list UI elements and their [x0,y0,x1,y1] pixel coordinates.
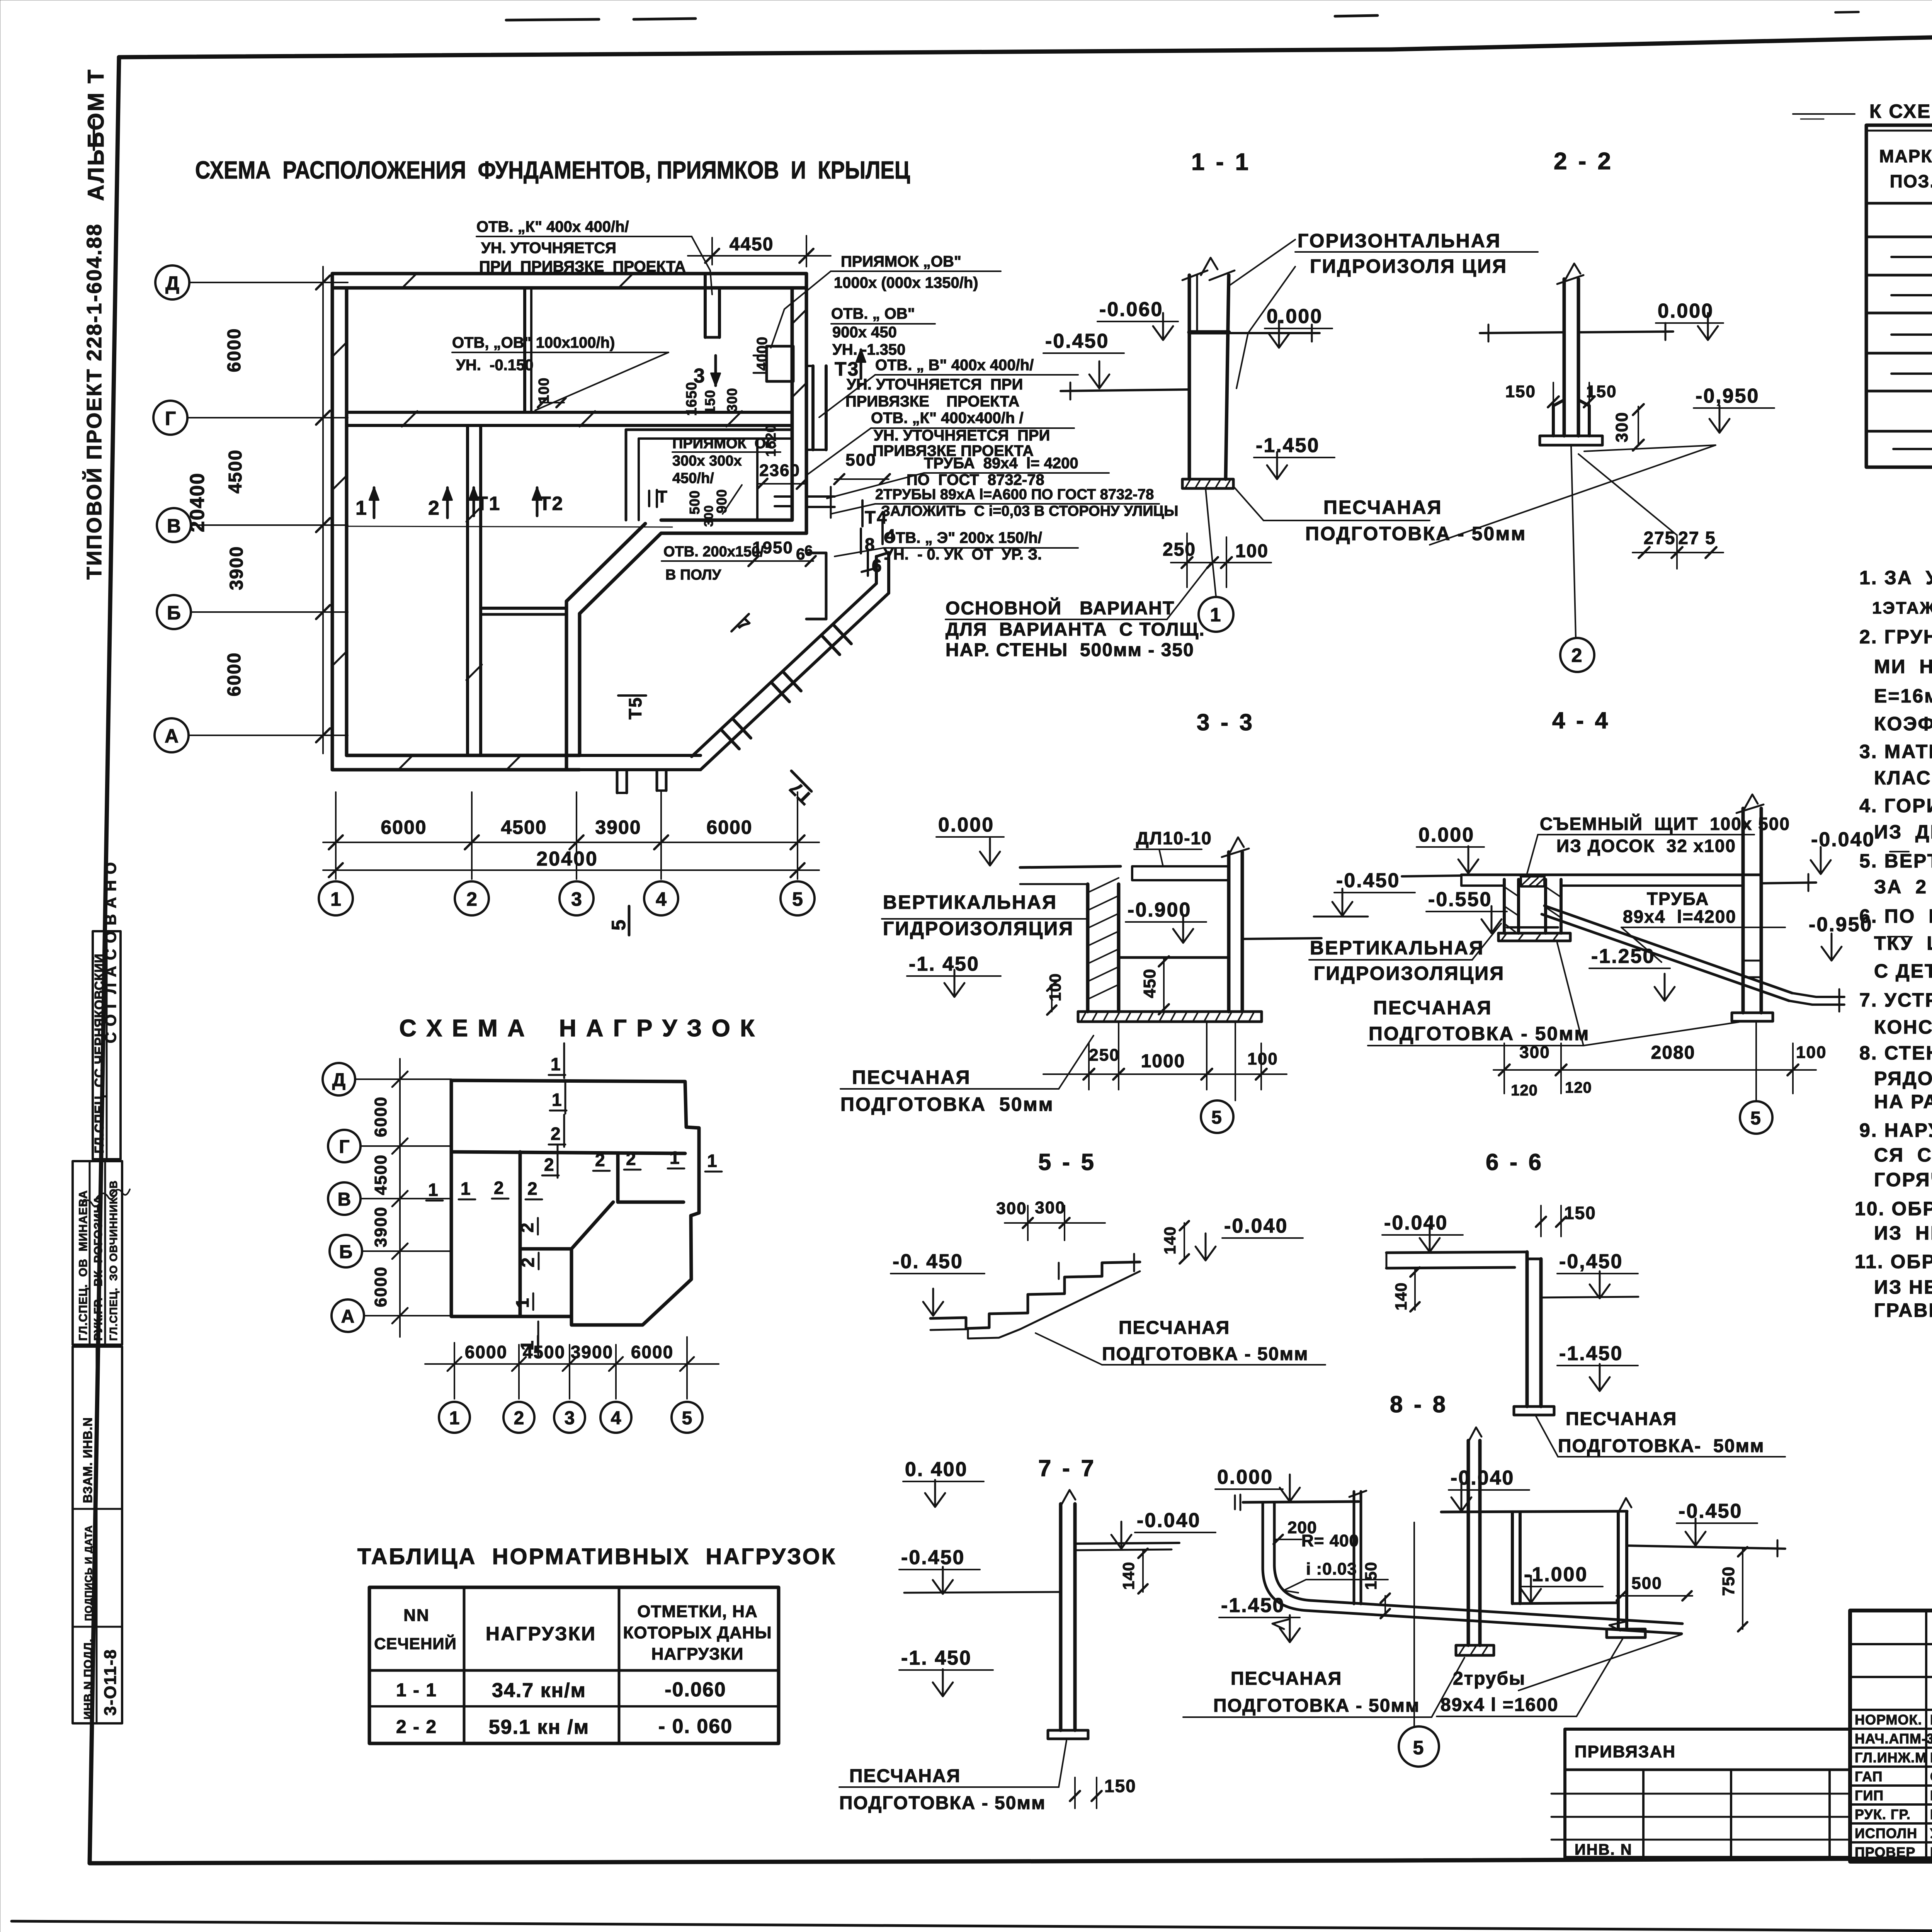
svg-text:ПЕСЧАНАЯ: ПЕСЧАНАЯ [852,1066,971,1088]
svg-text:РУК. ГР.: РУК. ГР. [1855,1806,1911,1822]
svg-text:150: 150 [1362,1561,1380,1590]
svg-text:4450: 4450 [730,234,774,255]
plan bay box right of wall [806,366,826,450]
sidebar inventory strip [73,1347,122,1723]
svg-text:ИЗ ДВУХ СЛОЕВ ГИДРОИЗОЛА Н: ИЗ ДВУХ СЛОЕВ ГИДРОИЗОЛА НА БИТУМНОЙ МАС… [1874,821,1932,843]
svg-text:ИЗ НЕПУЧИНИСТЫХ ГРУНТОВ.: ИЗ НЕПУЧИНИСТЫХ ГРУНТОВ. [1874,1222,1932,1244]
svg-text:ТРУБА 89х4 l= 4200: ТРУБА 89х4 l= 4200 [924,455,1078,472]
svg-text:ТРУБА: ТРУБА [1647,889,1709,909]
plan lower step box right of wall [806,553,826,619]
svg-text:4500: 4500 [371,1154,390,1195]
section mark T1 [469,488,501,516]
section 1-1 elevation -0.060 [1097,298,1178,340]
plan bottom dim line [323,792,819,879]
svg-text:100: 100 [1046,973,1064,1001]
section 8-8 axis circle 5 [1399,1522,1439,1767]
section 3-3 floor line right [1242,938,1321,939]
svg-text:6000: 6000 [224,652,245,697]
section 8-8 dim 750 [1719,1547,1747,1631]
svg-text:2: 2 [1571,645,1583,666]
section 4-4 elevation -0.040 right [1811,828,1909,874]
plan interior wall axis Б [481,607,566,610]
svg-text:В ПОЛУ: В ПОЛУ [665,567,721,583]
section 4-4 removable shield [1521,876,1544,886]
section 6-6 peschanaya text [1558,1409,1764,1456]
dim 2360 [757,461,807,489]
svg-text:7 - 7: 7 - 7 [1038,1455,1096,1481]
section 4-4 peschanaya text [1369,997,1590,1044]
title block stamp [1850,1611,1932,1862]
svg-text:Б: Б [167,602,181,624]
svg-text:1: 1 [512,1298,532,1308]
section 7-7 peschanaya text [839,1766,1046,1813]
svg-text:2трубы: 2трубы [1453,1668,1526,1689]
section mark 7 on stairs [731,614,754,636]
callout otv K 400x400 2 [871,410,1050,459]
svg-text:5: 5 [1211,1107,1223,1128]
svg-text:ВЗАМ. ИНВ.N: ВЗАМ. ИНВ.N [81,1417,95,1503]
section 4-4 pipe diagonal [1542,906,1844,1012]
svg-text:УН. УТОЧНЯЕТСЯ: УН. УТОЧНЯЕТСЯ [481,240,616,257]
plan right exterior wall [805,274,808,533]
section 3-3 bottom dims [1043,1022,1287,1090]
osnovnoy variant note [946,597,1205,660]
svg-text:УН. -0.150: УН. -0.150 [456,357,534,374]
top margin dashes [506,6,1932,20]
section 7-7 dim 140 [1119,1549,1148,1594]
section 1-1 ground line left [1061,389,1189,391]
svg-text:0.000: 0.000 [1658,300,1714,322]
plan priyamok OV box top-right [753,346,793,381]
svg-text:ГРАВИЕМ И УТРАМБОВАННЫХ.: ГРАВИЕМ И УТРАМБОВАННЫХ. [1874,1299,1932,1321]
svg-text:1 - 1: 1 - 1 [1191,149,1251,175]
section 7-7 elevation 0.400 [903,1458,984,1507]
section 8-8 elevation -0.040 [1449,1467,1529,1511]
svg-text:НЕКЛЮДОВ: НЕКЛЮДОВ [1930,1712,1932,1728]
section 3-3 vert hydro text [883,891,1074,939]
svg-text:ПРИВЯЗАН: ПРИВЯЗАН [1575,1742,1676,1761]
section 7-7 elevation -0.040 [1111,1509,1216,1549]
svg-text:ПИЧУГИН: ПИЧУГИН [1930,1750,1932,1765]
section 5-5 dim 140 [1161,1221,1189,1264]
section 2-2 elevation -0.950 [1694,385,1774,433]
svg-text:ОТВ. „ В" 400х 400/h/: ОТВ. „ В" 400х 400/h/ [875,357,1034,374]
svg-text:1: 1 [449,1408,460,1429]
svg-text:СХЕМА РАСПОЛОЖЕНИЯ ФУНДАМЕНТ: СХЕМА РАСПОЛОЖЕНИЯ ФУНДАМЕНТОВ, ПРИЯМКОВ… [195,156,910,184]
svg-text:ГОРЯЧИМ БИТУМОМ ЗА 2 РАЗА.: ГОРЯЧИМ БИТУМОМ ЗА 2 РАЗА. [1874,1169,1932,1190]
svg-text:САБО: САБО [1930,1769,1932,1784]
svg-text:250: 250 [1089,1046,1119,1065]
svg-text:ГОРИЗОНТАЛЬНАЯ: ГОРИЗОНТАЛЬНАЯ [1298,230,1501,252]
svg-text:100: 100 [1796,1043,1827,1062]
svg-text:ЗАЛОЖИТЬ С i=0,03 В СТОРОНУ У: ЗАЛОЖИТЬ С i=0,03 В СТОРОНУ УЛИЦЫ [881,503,1178,519]
svg-text:1: 1 [428,1180,438,1200]
svg-text:ПОДГОТОВКА - 50мм: ПОДГОТОВКА - 50мм [1102,1344,1308,1364]
porch bottom edge [580,768,701,771]
svg-text:В: В [338,1189,351,1210]
section mark T3 [835,350,866,380]
svg-text:ПЕСЧАНАЯ: ПЕСЧАНАЯ [1119,1318,1230,1338]
svg-text:0.000: 0.000 [1217,1466,1273,1488]
svg-text:ПРИЯМОК ОС: ПРИЯМОК ОС [672,435,777,452]
svg-text:ИЗ ДОСОК 32 х100: ИЗ ДОСОК 32 х100 [1556,836,1736,856]
svg-text:ИЗ НЕПУЧИНИ СТЫХ ГРУНТОВ, У: ИЗ НЕПУЧИНИ СТЫХ ГРУНТОВ, УПЛОТНЕННЫХ ЩЕ… [1874,1276,1932,1298]
section 5-5 dims 300 300 [996,1198,1105,1240]
svg-text:ПО ГОСТ 8732-78: ПО ГОСТ 8732-78 [906,471,1044,488]
svg-text:20400: 20400 [186,473,209,532]
section 2-2 footing [1540,436,1602,445]
svg-text:150: 150 [702,389,718,414]
svg-text:-0.040: -0.040 [1137,1509,1201,1532]
porch diagonal stairs [692,583,889,770]
svg-text:2080: 2080 [1651,1043,1696,1063]
plan priyamok OS box [626,430,792,520]
section 3-3 pit walls [1020,837,1262,1022]
svg-text:7. УСТРОЙСТВО ПРИЯМКОВ ПРО: 7. УСТРОЙСТВО ПРИЯМКОВ ПРОИЗВОДИТЬ ДО ВЫ… [1859,989,1932,1011]
dim 4450 top [688,234,831,267]
svg-text:300: 300 [1612,412,1631,442]
svg-text:ПИЧУГИН: ПИЧУГИН [1930,1731,1932,1747]
svg-text:120: 120 [1511,1082,1538,1099]
svg-text:300: 300 [702,505,716,527]
svg-text:300: 300 [1519,1043,1550,1062]
load scheme axis dims [371,1059,408,1337]
svg-text:А: А [341,1306,355,1327]
svg-text:ТИПОВОЙ ПРОЕКТ 228-1-604.88: ТИПОВОЙ ПРОЕКТ 228-1-604.88 [82,223,106,580]
svg-text:ГЛ.ИНЖ.М: ГЛ.ИНЖ.М [1855,1750,1927,1765]
svg-text:-1. 450: -1. 450 [909,953,980,975]
load table [369,1587,779,1743]
section 8-8 left floor slab [1235,1495,1359,1510]
svg-text:300х 300х: 300х 300х [672,453,742,469]
svg-text:ПОЗ.: ПОЗ. [1890,171,1932,191]
svg-text:ГИП: ГИП [1855,1787,1884,1803]
section 3-3 elevation -1.450 [907,953,1001,997]
section 8-8 dim 150 mid [1362,1561,1390,1618]
section 1-1 elevation -0.450 [1043,330,1124,388]
section 3-3 peschanaya text [840,1066,1054,1115]
svg-text:6: 6 [872,556,883,576]
svg-text:-0. 450: -0. 450 [893,1250,963,1273]
svg-text:-0,450: -0,450 [1559,1250,1623,1273]
svg-text:ПРОВЕР: ПРОВЕР [1855,1844,1915,1860]
svg-text:6000: 6000 [631,1342,673,1362]
svg-text:1: 1 [461,1179,471,1199]
svg-text:0.000: 0.000 [938,814,994,836]
peschanaya podgotovka 1-1 2-2 text [1305,497,1526,544]
svg-text:3 - 3: 3 - 3 [1197,709,1255,735]
plan diagonal exterior wall [580,533,661,614]
plan axis B centerline [348,526,672,527]
svg-text:НЕКЛЮДОВ: НЕКЛЮДОВ [1930,1787,1932,1803]
section 8-8 pipe with curve [1263,1502,1682,1634]
svg-text:8. СТЕНКИ ПРИЯМКОВ ВЫПОЛНИ: 8. СТЕНКИ ПРИЯМКОВ ВЫПОЛНИТЬ ИЗ КИРПИЧА … [1859,1042,1932,1064]
section mark 8 [861,529,876,554]
plan bottom exterior wall [332,768,580,772]
svg-text:300: 300 [1035,1198,1065,1217]
svg-text:КЛАССА В 10, F=100, Wб.: КЛАССА В 10, F=100, Wб. [1874,767,1932,789]
svg-text:Е=16мПа (160кгс/см²) ; γн=1,8: Е=16мПа (160кгс/см²) ; γн=1,8 тс/м³ ; γп… [1874,685,1932,707]
svg-text:3: 3 [571,888,582,910]
plan exterior wall axis3 below diagonal [578,614,582,755]
svg-text:5: 5 [1750,1108,1762,1129]
svg-text:900: 900 [714,489,730,513]
svg-text:150: 150 [1505,382,1536,401]
svg-text:5: 5 [682,1408,692,1429]
svg-text:4000: 4000 [754,337,770,371]
svg-text:РУК.ГР. ВК РОГОЗИНА: РУК.ГР. ВК РОГОЗИНА [92,1196,105,1341]
svg-text:СЪЕМНЫЙ ЩИТ 100х 500: СЪЕМНЫЙ ЩИТ 100х 500 [1540,814,1790,834]
section mark T2 [532,488,564,516]
svg-text:ЗА 2 РАЗА.: ЗА 2 РАЗА. [1874,876,1932,898]
svg-text:i :0.03: i :0.03 [1306,1560,1357,1578]
section 1-1 elevation -1.450 [1254,434,1335,479]
paper bottom edge line [12,1921,1932,1932]
svg-text:НАГРУЗКИ: НАГРУЗКИ [651,1645,744,1663]
svg-text:9. НАРУЖНЫЕ ПОВЕРХНОСТИ С: 9. НАРУЖНЫЕ ПОВЕРХНОСТИ СТЕНОК ПРИЯМКОВ,… [1859,1119,1932,1141]
section 8-8 peschanaya text [1213,1668,1420,1716]
svg-text:6 - 6: 6 - 6 [1486,1149,1544,1175]
svg-text:6: 6 [804,543,813,559]
svg-text:3900: 3900 [571,1342,613,1362]
load scheme interior walls [451,1152,685,1316]
svg-text:Г: Г [339,1137,349,1157]
svg-text:-1. 450: -1. 450 [901,1647,972,1669]
svg-text:К СХЕМЕ: К СХЕМЕ [1869,100,1932,122]
svg-text:КОЭФФИЦИЕНТ УСЛОВИЙ РАБОТЫ: КОЭФФИЦИЕНТ УСЛОВИЙ РАБОТЫ ГРУНТОВОГО ОС… [1874,713,1932,735]
svg-text:ОТВ. „К" 400х 400/h/: ОТВ. „К" 400х 400/h/ [476,218,629,235]
section 1-1 bottom dims [1163,533,1271,587]
porch right vertical piece [862,553,889,593]
section 4-4 truba text [1623,889,1736,927]
plan pipe marks inside priyamok area [649,487,835,518]
svg-text:6000: 6000 [371,1266,390,1307]
svg-text:ОСНОВНОЙ ВАРИАНТ: ОСНОВНОЙ ВАРИАНТ [946,597,1175,619]
plan left exterior wall [331,274,334,770]
section 3-3 elevation 0.000 [936,814,1004,866]
svg-text:3900: 3900 [371,1206,390,1247]
svg-text:20400: 20400 [536,848,598,870]
svg-text:3900: 3900 [226,546,247,590]
svg-text:ОТВ. „ Э" 200х 150/h/: ОТВ. „ Э" 200х 150/h/ [884,529,1042,546]
section 6-6 elevation -0.450 [1541,1250,1638,1298]
svg-text:2: 2 [494,1178,504,1198]
svg-text:6000: 6000 [381,816,427,838]
svg-text:2: 2 [595,1150,605,1170]
svg-text:-0,950: -0,950 [1696,385,1759,407]
specification table [1866,125,1932,467]
svg-text:ОТВ. 200х150/: ОТВ. 200х150/ [663,544,764,560]
svg-text:-0.060: -0.060 [1099,298,1163,321]
svg-text:R= 400: R= 400 [1301,1531,1359,1550]
plan rotated small dims right side [684,337,779,527]
svg-text:-1.450: -1.450 [1221,1594,1285,1617]
svg-text:-0.060: -0.060 [665,1679,726,1701]
section 2-2 axis circle 2 [1560,445,1594,672]
svg-text:Т1: Т1 [476,493,501,514]
svg-text:5. ВЕРТИКАЛЬНУЮ ГИДРОИЗОЛЯЦИ: 5. ВЕРТИКАЛЬНУЮ ГИДРОИЗОЛЯЦИЮ ВЫПОЛНИТЬ … [1859,850,1932,872]
svg-text:-0.450: -0.450 [901,1546,965,1569]
svg-text:ОТВ, „ОВ" 100х100/h): ОТВ, „ОВ" 100х100/h) [452,334,615,351]
section mark 6 [796,545,883,576]
section 2-2 floor lines [1480,332,1564,333]
svg-text:120: 120 [1565,1079,1592,1096]
svg-text:ПОДПИСЬ И ДАТА: ПОДПИСЬ И ДАТА [83,1525,94,1621]
svg-text:2. ГРУНТЫ ПРИНЯТЫ НЕПУЧИНИСТ: 2. ГРУНТЫ ПРИНЯТЫ НЕПУЧИНИСТЫЕ, НЕПРОСАД… [1859,626,1932,648]
svg-text:3-О11-8: 3-О11-8 [101,1649,120,1716]
plan interior wall along axis Г [347,411,792,414]
section 4-4 elevation -0.450 [1314,869,1415,917]
section 5-5 peschanaya text [1102,1318,1308,1364]
svg-text:450/h/: 450/h/ [672,470,714,486]
section 8-8 left pit wall thin [1349,1491,1366,1604]
svg-text:300: 300 [724,388,740,412]
section 8-8 right ground line [1627,1540,1785,1556]
section 6-6 elevation -1.450 [1557,1342,1638,1391]
svg-text:ПОДГОТОВКА 50мм: ПОДГОТОВКА 50мм [840,1094,1054,1115]
svg-text:1000: 1000 [1141,1051,1185,1071]
callout otv OV 900x450 [831,305,915,358]
section 4-4 elevation -0.550 [1426,888,1507,933]
svg-text:ГЛ.СПЕЦ. СС ЧЕРНЯКОВСКИЙ: ГЛ.СПЕЦ. СС ЧЕРНЯКОВСКИЙ [92,953,106,1153]
svg-text:2: 2 [544,1155,554,1175]
svg-text:НА РАСТВОРЕ МАРКИ 25.: НА РАСТВОРЕ МАРКИ 25. [1874,1091,1932,1112]
section 8-8 dim 200 [1274,1518,1317,1544]
svg-text:-0.950: -0.950 [1809,913,1872,936]
svg-text:ГЛ.СПЕЦ. ЗО ОВЧИННИКОВ: ГЛ.СПЕЦ. ЗО ОВЧИННИКОВ [107,1180,119,1341]
dim 1950 and 64 [748,538,816,566]
svg-text:450: 450 [1140,969,1159,998]
section 1-1 elevation 0.000 [1265,305,1332,348]
section 8-8 elevation 0.000 [1215,1466,1300,1502]
section 4-4 floor slab [1402,875,1743,886]
porch entry stubs below bottom wall [617,770,666,793]
section mark T7 [785,771,816,808]
svg-text:АЛЬБОМ Т: АЛЬБОМ Т [83,68,109,201]
svg-text:750: 750 [1719,1566,1738,1596]
section mark T4 and 4 [862,500,896,545]
svg-text:0. 400: 0. 400 [905,1458,968,1481]
svg-text:5: 5 [792,888,803,910]
section 7-7 elevation -1.450 [899,1647,993,1696]
svg-text:НОРМОК.: НОРМОК. [1855,1712,1922,1728]
svg-text:ТКУ ШИРИНОЙ 1000ММ ПО СЕРИИ: ТКУ ШИРИНОЙ 1000ММ ПО СЕРИИ 2.110-1 ВЫП.… [1874,932,1932,954]
svg-text:140: 140 [1119,1561,1138,1590]
callout priyamok OV header [834,253,978,291]
section 2-2 dims 150 150 [1505,382,1644,451]
svg-text:ПОДГОТОВКА - 50мм: ПОДГОТОВКА - 50мм [1369,1023,1590,1044]
svg-text:250: 250 [1163,539,1196,560]
section 1-1 hydro leader [1229,240,1295,286]
svg-text:ДЛ10-10: ДЛ10-10 [1136,828,1212,848]
svg-text:2360: 2360 [759,461,800,480]
callout truba 89x4 [906,455,1078,488]
svg-text:-0.450: -0.450 [1045,330,1109,352]
section 1-1 wall [1182,258,1235,488]
svg-text:ПОДГОТОВКА - 50мм: ПОДГОТОВКА - 50мм [1305,523,1526,544]
svg-text:ГИДРОИЗОЛЯЦИЯ: ГИДРОИЗОЛЯЦИЯ [883,918,1074,939]
svg-text:2: 2 [527,1179,537,1199]
svg-text:Д: Д [165,272,179,294]
svg-text:8 - 8: 8 - 8 [1390,1391,1448,1417]
svg-text:НАР. СТЕНЫ 500мм - 350: НАР. СТЕНЫ 500мм - 350 [946,640,1194,660]
svg-text:ПРИ ПРИВЯЗКЕ ПРОЕКТА: ПРИ ПРИВЯЗКЕ ПРОЕКТА [479,258,686,275]
svg-text:500: 500 [1631,1574,1662,1593]
svg-text:КОТОРЫХ ДАНЫ: КОТОРЫХ ДАНЫ [623,1623,772,1642]
svg-text:3: 3 [565,1408,575,1429]
section 2-2 base flare [1553,400,1564,436]
svg-text:2: 2 [514,1408,524,1429]
svg-text:4500: 4500 [523,1342,565,1362]
load scheme section load marks [426,1043,722,1356]
svg-text:ГИДРОИЗОЛЯ ЦИЯ: ГИДРОИЗОЛЯ ЦИЯ [1310,255,1507,277]
svg-text:3. МАТЕРИАЛ ФУНДАМЕНТОВ ПОД: 3. МАТЕРИАЛ ФУНДАМЕНТОВ ПОД СТЕНЫ, КРЫЛЬ… [1859,741,1932,762]
section 4-4 elevation -1.250 [1589,945,1675,1001]
svg-text:10. ОБРАТНУЮ ЗАСЫПКУ ПАЗУ: 10. ОБРАТНУЮ ЗАСЫПКУ ПАЗУХ ФУНДАМЕНТОВ В… [1855,1198,1932,1219]
svg-text:4: 4 [611,1408,621,1429]
svg-text:500: 500 [687,490,702,514]
svg-text:ГЛ.СПЕЦ. ОВ МИНАЕВА: ГЛ.СПЕЦ. ОВ МИНАЕВА [77,1190,90,1341]
svg-text:С Х Е М А Н А Г Р У З О К: С Х Е М А Н А Г Р У З О К [399,1015,756,1042]
svg-text:NN: NN [403,1606,430,1625]
dim 100 small near axis Г [536,378,566,407]
svg-text:БАРМИНСКАЯ: БАРМИНСКАЯ [1930,1806,1932,1822]
svg-text:ПЕСЧАНАЯ: ПЕСЧАНАЯ [1323,497,1442,518]
svg-text:1650: 1650 [684,382,700,416]
svg-text:-0.040: -0.040 [1451,1467,1514,1489]
svg-text:ПОДГОТОВКА - 50мм: ПОДГОТОВКА - 50мм [1213,1696,1420,1716]
callout otv E 200x150 [884,529,1042,563]
section mark 1 [355,488,379,519]
callout priyamok OS text [672,435,777,486]
svg-text:ИНВ. N: ИНВ. N [1575,1841,1633,1858]
svg-text:100: 100 [1235,541,1269,561]
svg-text:1: 1 [1210,604,1222,626]
svg-text:Д: Д [332,1070,345,1090]
svg-text:МИ НОРМАТИВНЫМИ ХАРАКТЕРИСТИ: МИ НОРМАТИВНЫМИ ХАРАКТЕРИСТИКАМИ: φн=24°… [1874,656,1932,677]
svg-text:2: 2 [466,888,477,910]
section 6-6 elevation -0.040 [1382,1212,1463,1252]
svg-text:МАРКА: МАРКА [1879,146,1932,166]
svg-text:РЯДОВОГО ПОЛНОТЕЛОГО ОБЫКН: РЯДОВОГО ПОЛНОТЕЛОГО ОБЫКНОВЕННОГО МАРКИ… [1874,1068,1932,1089]
svg-text:СЯ С ГРУНТОМ, ЗАТЕРЕТЬ ЦЕ: СЯ С ГРУНТОМ, ЗАТЕРЕТЬ ЦЕМЕНТНЫМ РАСТВОР… [1874,1144,1932,1166]
section 8-8 elevation -1.000 [1521,1563,1603,1603]
svg-text:2 - 2: 2 - 2 [1554,148,1613,175]
svg-text:5: 5 [1413,1737,1425,1759]
section mark 5 below plan [608,906,629,935]
svg-text:-1.450: -1.450 [1559,1342,1623,1365]
section 4-4 bottom dims [1493,1043,1827,1099]
svg-text:ТАБЛИЦА НОРМАТИВНЫХ НАГРУЗОК: ТАБЛИЦА НОРМАТИВНЫХ НАГРУЗОК [357,1544,837,1569]
svg-text:0.000: 0.000 [1267,305,1323,328]
svg-text:ПЕСЧАНАЯ: ПЕСЧАНАЯ [1231,1668,1342,1689]
svg-text:С ДЕТ. 52 БЕЗ УСТАНОВКИ: С ДЕТ. 52 БЕЗ УСТАНОВКИ БОРТОВОГО КАМНЯ. [1874,960,1932,982]
section 4-4 vert hydro text [1310,937,1505,984]
section 5-5 elevation -0.450 [891,1250,985,1316]
svg-text:1: 1 [707,1151,717,1171]
svg-text:100: 100 [1247,1049,1278,1068]
svg-text:СЕЧЕНИЙ: СЕЧЕНИЙ [374,1634,457,1653]
section mark 2 [428,488,452,519]
plan interior wall axis 2 [466,425,469,755]
svg-text:-0.900: -0.900 [1128,899,1191,921]
svg-text:-0.040: -0.040 [1384,1212,1448,1234]
section 8-8 2truby text [1440,1668,1559,1715]
callout otv K top [476,218,686,275]
section 3-3 ladder [1132,828,1229,880]
section 8-8 dim 500 [1616,1574,1692,1600]
callout otv V 400x400 [845,357,1034,410]
